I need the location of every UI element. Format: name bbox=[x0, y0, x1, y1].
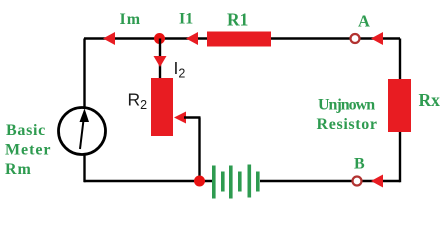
node junction bottom bbox=[194, 176, 205, 187]
svg-text:I1: I1 bbox=[179, 11, 193, 28]
svg-text:Rm: Rm bbox=[5, 161, 32, 178]
arrow at node B bbox=[371, 175, 383, 188]
svg-text:R1: R1 bbox=[227, 10, 248, 30]
svg-text:A: A bbox=[358, 12, 370, 31]
svg-text:R2: R2 bbox=[128, 90, 148, 112]
node B bbox=[353, 177, 362, 186]
svg-text:Meter: Meter bbox=[5, 142, 51, 159]
battery plate long 2 bbox=[229, 166, 233, 199]
svg-text:Im: Im bbox=[120, 11, 142, 28]
wire wiper vertical bbox=[198, 118, 200, 182]
meter needle arrow bbox=[80, 109, 90, 150]
wire wiper horizontal bbox=[184, 116, 201, 118]
wire middle branch bbox=[159, 39, 161, 80]
battery B1 bbox=[212, 165, 260, 199]
meter M1 bbox=[59, 108, 106, 155]
arrow at node A bbox=[371, 32, 383, 45]
svg-text:Basic: Basic bbox=[6, 122, 46, 139]
wire left bbox=[83, 39, 85, 109]
svg-text:I2: I2 bbox=[174, 58, 186, 80]
arrow Im bbox=[103, 32, 115, 45]
battery plate short 2 bbox=[238, 172, 242, 192]
node junction top bbox=[154, 33, 165, 44]
wire bottom right of battery bbox=[260, 180, 400, 182]
wire meter bottom lead bbox=[83, 154, 85, 182]
battery plate long 1 bbox=[212, 166, 216, 199]
battery plate short 1 bbox=[221, 172, 225, 192]
arrow I1 bbox=[186, 32, 198, 45]
battery plate long 3 bbox=[248, 165, 252, 198]
wiper arrow of R2 bbox=[174, 112, 186, 124]
svg-text:B: B bbox=[354, 155, 365, 172]
arrow I2 bbox=[154, 56, 167, 67]
svg-text:Resistor: Resistor bbox=[317, 116, 378, 133]
wire bottom bbox=[84, 180, 212, 182]
resistor Rx bbox=[388, 79, 411, 132]
resistor R2 bbox=[151, 78, 173, 136]
svg-text:Unjnown: Unjnown bbox=[318, 97, 375, 114]
svg-text:Rx: Rx bbox=[419, 90, 441, 110]
resistor R1 bbox=[207, 32, 271, 47]
wire right bbox=[399, 39, 401, 183]
battery plate short 3 bbox=[256, 172, 260, 192]
node A bbox=[351, 34, 360, 43]
wire top bbox=[84, 37, 400, 39]
